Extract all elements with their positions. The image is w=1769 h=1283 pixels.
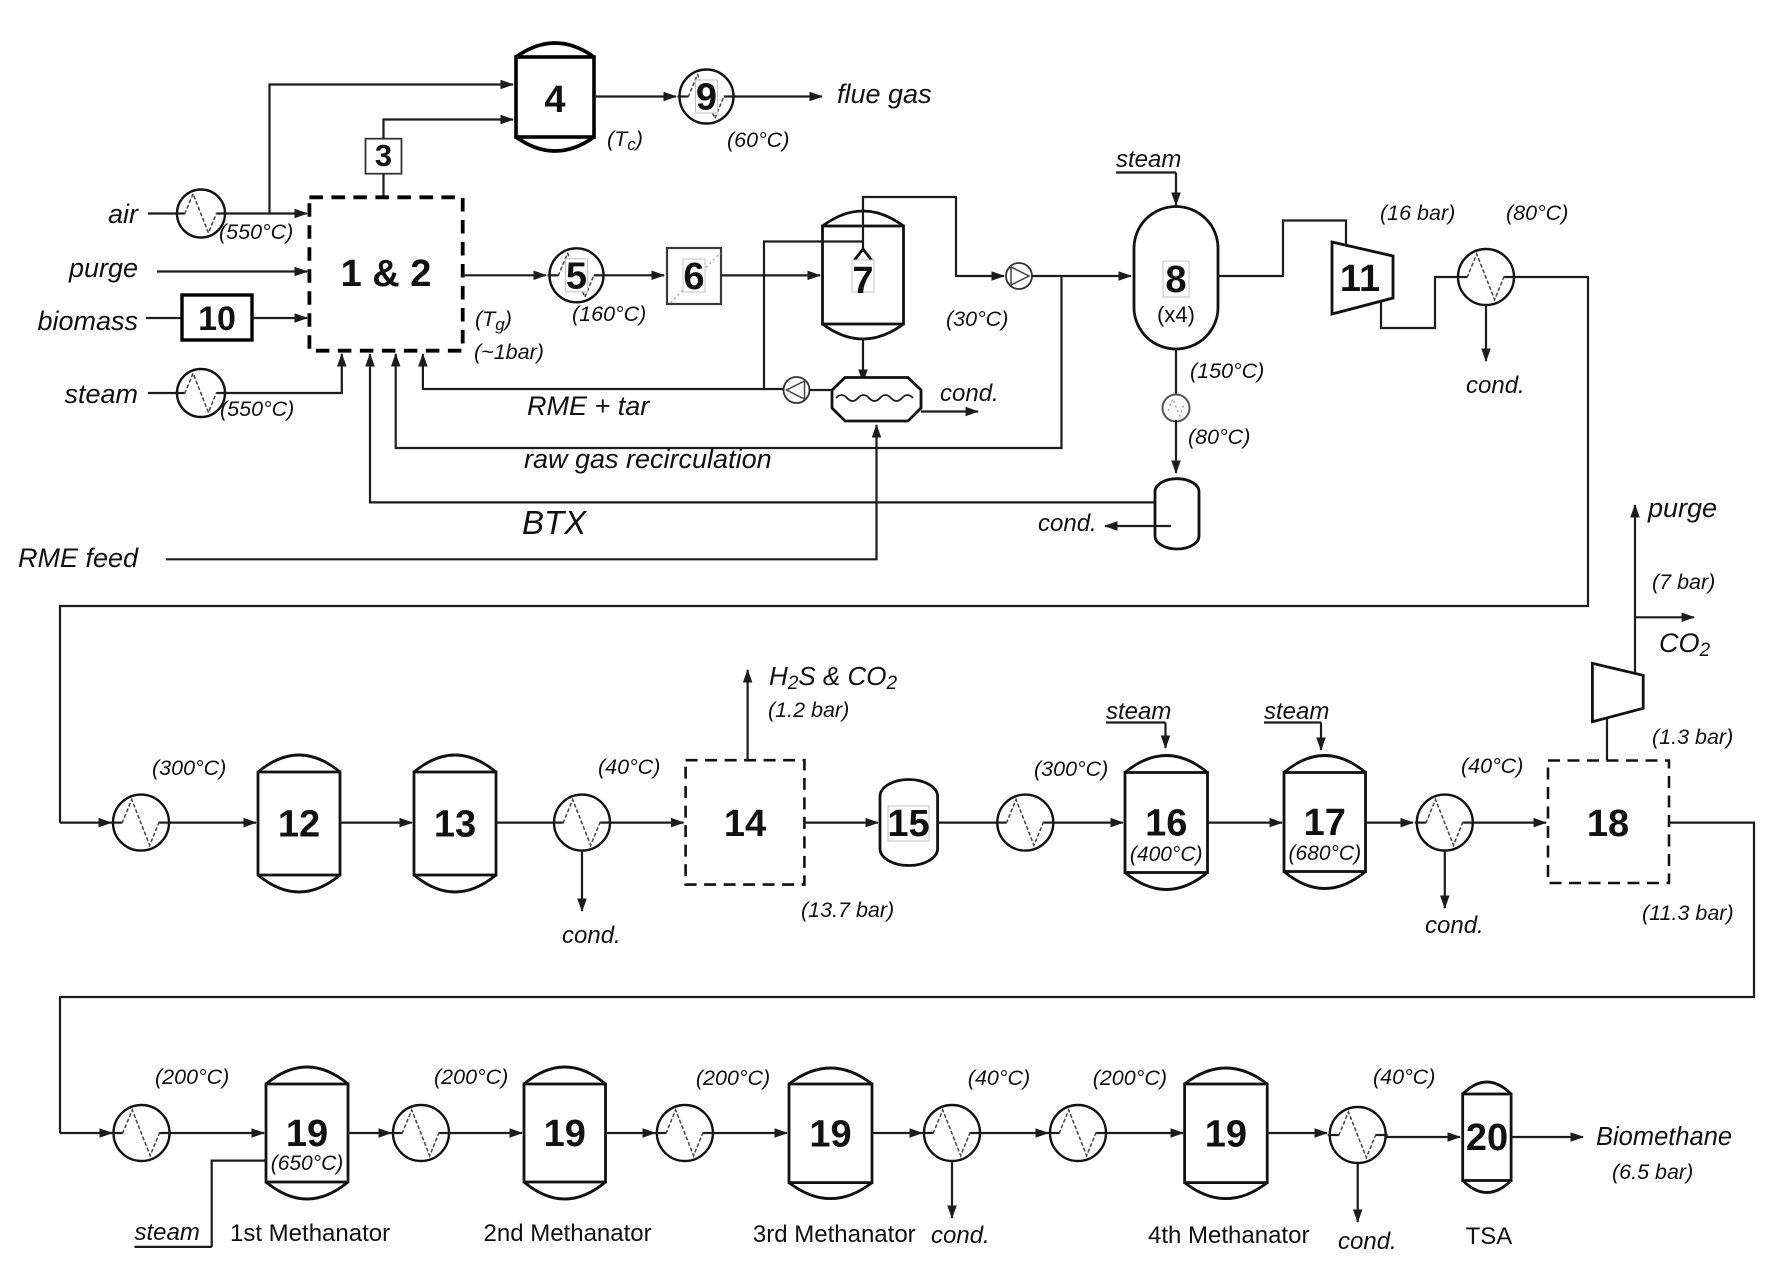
svg-text:cond.: cond. xyxy=(931,1222,990,1249)
heater row2 300C xyxy=(111,795,171,851)
svg-text:(160°C): (160°C) xyxy=(572,302,646,326)
wire heater to 19d xyxy=(1106,1132,1184,1134)
svg-text:(300°C): (300°C) xyxy=(152,756,226,780)
unit 12 guard bed vessel xyxy=(258,755,340,892)
svg-text:(80°C): (80°C) xyxy=(1506,201,1568,225)
wire purge to gasifier xyxy=(157,270,307,272)
wire steam to reformer 8 xyxy=(1175,173,1177,206)
node steam methanator label xyxy=(135,1219,212,1247)
svg-text:16: 16 xyxy=(1145,803,1187,845)
heater row3 40C a xyxy=(922,1105,982,1161)
wire 12 to 13 xyxy=(340,821,412,823)
wire 19a to heater xyxy=(348,1132,391,1134)
label (40C) row2 b xyxy=(1461,754,1523,778)
label TSA xyxy=(1466,1223,1513,1250)
unit 15 polishing vessel xyxy=(880,780,938,866)
label cond row2 a xyxy=(562,922,621,949)
node purge top right label xyxy=(1647,493,1717,523)
unit 18 PSA dashed box xyxy=(1548,761,1669,884)
svg-text:3rd Methanator: 3rd Methanator xyxy=(753,1221,916,1248)
svg-text:20: 20 xyxy=(1466,1117,1508,1159)
wire 15 to heater 300C b xyxy=(938,821,998,823)
svg-text:17: 17 xyxy=(1304,802,1346,844)
svg-text:(40°C): (40°C) xyxy=(1373,1065,1435,1089)
svg-text:air: air xyxy=(108,199,139,229)
label cond. right xyxy=(1466,372,1525,399)
label (160°C) xyxy=(572,302,646,326)
svg-text:cond.: cond. xyxy=(1038,510,1097,537)
unit 19 first methanator vessel xyxy=(266,1067,348,1199)
wire heater to 19a xyxy=(169,1132,264,1134)
svg-text:2nd Methanator: 2nd Methanator xyxy=(484,1220,652,1247)
wire into heater row3 200C xyxy=(60,1132,112,1134)
wire 17 to heater 40C b xyxy=(1366,821,1414,823)
unit 17 reformer vessel xyxy=(1284,756,1366,889)
svg-text:steam: steam xyxy=(1106,698,1171,725)
wire unit 3 down to gasifier xyxy=(382,174,384,198)
label (550°C) steam xyxy=(220,397,294,421)
node RME feed label xyxy=(18,543,139,573)
wire RME tar from scrubber 7 xyxy=(423,242,863,390)
vessel BTX knockout xyxy=(1155,479,1199,549)
svg-text:(1.2 bar): (1.2 bar) xyxy=(768,698,849,722)
unit 19 third methanator vessel xyxy=(789,1068,872,1199)
pump B RME circulation xyxy=(784,377,810,403)
label (60°C) xyxy=(727,128,789,152)
wire 18 to row3 recycle xyxy=(60,823,1754,1133)
wire heater to unit 18 xyxy=(1472,821,1546,823)
svg-text:(200°C): (200°C) xyxy=(155,1065,229,1089)
svg-text:19: 19 xyxy=(1205,1113,1247,1155)
label (Tg) xyxy=(475,307,512,334)
svg-text:cond.: cond. xyxy=(940,380,999,407)
svg-text:cond.: cond. xyxy=(562,922,621,949)
wire unit 4 to heater 9 xyxy=(594,95,676,97)
wire pump to reformer 8 xyxy=(1032,275,1131,277)
svg-text:flue gas: flue gas xyxy=(837,79,932,109)
heater row3 40C b xyxy=(1328,1107,1388,1163)
node steam into reformer 8 label xyxy=(1116,146,1181,173)
wire CO2 branch xyxy=(1635,616,1694,618)
label (150C) xyxy=(1190,359,1264,383)
wire 19d to heater 40C b xyxy=(1267,1132,1327,1134)
label 1st Methanator xyxy=(230,1220,390,1247)
svg-text:steam: steam xyxy=(1116,146,1181,173)
label cond row2 b xyxy=(1425,912,1484,939)
svg-text:(80°C): (80°C) xyxy=(1188,425,1250,449)
label (200C) row3 a xyxy=(155,1065,229,1089)
label (80°C) top right xyxy=(1506,201,1568,225)
wire drum condensate out xyxy=(921,410,978,412)
label (200C) row3 b xyxy=(434,1065,508,1089)
wire heater cond down row2 xyxy=(581,850,583,911)
wire to BTX knockout xyxy=(1175,420,1177,473)
wire filter 6 to scrubber 7 xyxy=(721,274,820,276)
wire heater to vessel 16 xyxy=(1053,821,1123,823)
label (30°C) xyxy=(946,307,1008,331)
svg-text:(~1bar): (~1bar) xyxy=(474,340,544,364)
label RME + tar xyxy=(527,391,650,421)
svg-text:(680°C): (680°C) xyxy=(1289,842,1362,865)
svg-text:1st Methanator: 1st Methanator xyxy=(230,1220,390,1247)
heater air preheater xyxy=(175,190,227,238)
svg-text:(300°C): (300°C) xyxy=(1034,757,1108,781)
heater row2 40C b xyxy=(1415,795,1475,851)
svg-text:18: 18 xyxy=(1587,803,1629,845)
heater row3 200C a xyxy=(112,1105,172,1161)
wire air label to heater xyxy=(148,212,179,214)
label BTX xyxy=(522,504,588,541)
svg-text:BTX: BTX xyxy=(522,504,588,541)
svg-text:(400°C): (400°C) xyxy=(1130,843,1203,866)
svg-text:(550°C): (550°C) xyxy=(220,397,294,421)
wire heater to purge recycle down xyxy=(60,277,1588,823)
svg-text:(7 bar): (7 bar) xyxy=(1652,570,1715,594)
svg-text:19: 19 xyxy=(809,1113,851,1155)
svg-text:(x4): (x4) xyxy=(1157,302,1195,327)
svg-text:4: 4 xyxy=(544,79,565,121)
wire recycle into heater 300C xyxy=(60,821,111,823)
svg-text:steam: steam xyxy=(135,1219,200,1246)
label (~1bar) xyxy=(474,340,544,364)
svg-text:10: 10 xyxy=(198,300,236,338)
label 4th Methanator xyxy=(1148,1222,1309,1249)
wire reformer 8 to turbine 11 xyxy=(1218,221,1346,277)
unit 10 biomass pretreatment xyxy=(182,295,252,340)
node biomass feed label xyxy=(37,306,138,336)
wire turbine 11 to heater xyxy=(1381,277,1458,328)
label 2nd Methanator xyxy=(484,1220,652,1247)
heater row3 200C d xyxy=(1048,1105,1108,1161)
svg-text:(200°C): (200°C) xyxy=(1093,1066,1167,1090)
svg-text:(200°C): (200°C) xyxy=(696,1066,770,1090)
wire 19c to heater 40C xyxy=(872,1132,922,1134)
unit 19 fourth methanator vessel xyxy=(1185,1068,1268,1199)
svg-text:Biomethane: Biomethane xyxy=(1596,1123,1732,1151)
unit 7 RME scrubber vessel xyxy=(823,211,904,339)
svg-text:(Tc): (Tc) xyxy=(607,127,643,154)
compressor CO2 xyxy=(1592,663,1643,721)
svg-text:(40°C): (40°C) xyxy=(598,755,660,779)
wire 19b to heater xyxy=(606,1132,656,1134)
label (40C) row3 b xyxy=(1373,1065,1435,1089)
svg-text:11: 11 xyxy=(1340,258,1380,300)
wire unit 3 up to unit 4 xyxy=(384,120,514,139)
node air feed label xyxy=(108,199,139,229)
label (Tc) xyxy=(607,127,643,154)
unit 3 label box xyxy=(366,138,402,174)
pump after scrubber 7 xyxy=(1006,263,1032,289)
heater 9 flue gas cooler xyxy=(678,70,736,124)
label (80C) small xyxy=(1188,425,1250,449)
wire heater 5 to filter 6 xyxy=(604,274,665,276)
wire unit 10 to gasifier xyxy=(252,317,307,319)
label cond. drum xyxy=(940,380,999,407)
svg-text:1 & 2: 1 & 2 xyxy=(341,253,432,295)
wire scrubber 7 gas outlet to pump xyxy=(863,197,1004,276)
svg-text:(30°C): (30°C) xyxy=(946,307,1008,331)
label (40C) row2 a xyxy=(598,755,660,779)
heater 5 raw gas cooler xyxy=(548,248,606,302)
svg-text:15: 15 xyxy=(887,803,929,845)
wire heater to unit 14 xyxy=(610,821,684,823)
node steam into 16 label xyxy=(1106,698,1171,725)
wire heater 9 to flue gas xyxy=(734,95,823,97)
svg-text:5: 5 xyxy=(566,255,587,297)
svg-text:purge: purge xyxy=(1647,493,1717,523)
unit 13 guard bed vessel xyxy=(414,755,496,892)
wire heater cond down row2 b xyxy=(1444,850,1446,908)
wire 14 to 15 xyxy=(804,821,878,823)
label (300C) row2 b xyxy=(1034,757,1108,781)
wire 13 to heater 40C xyxy=(496,821,555,823)
svg-text:cond.: cond. xyxy=(1466,372,1525,399)
label cond row3 b xyxy=(1338,1228,1397,1255)
wire gasifier to heater 5 xyxy=(463,274,546,276)
svg-text:purge: purge xyxy=(68,253,138,283)
node steam feed label xyxy=(64,379,138,409)
wire scrubber 7 bottoms to drum xyxy=(862,338,864,382)
label (16 bar) xyxy=(1380,201,1455,225)
svg-text:raw gas recirculation: raw gas recirculation xyxy=(524,444,772,474)
svg-text:4th Methanator: 4th Methanator xyxy=(1148,1222,1309,1249)
unit 14 acid gas removal dashed box xyxy=(686,760,805,884)
label (13.7 bar) xyxy=(801,898,894,922)
label (11.3 bar) xyxy=(1642,901,1734,925)
label (1.2 bar) xyxy=(768,698,849,722)
label 3rd Methanator xyxy=(753,1221,916,1248)
svg-text:RME + tar: RME + tar xyxy=(527,391,650,421)
svg-text:(550°C): (550°C) xyxy=(219,220,293,244)
svg-text:TSA: TSA xyxy=(1466,1223,1513,1250)
wire heater 40 to heater 200 xyxy=(980,1132,1049,1134)
svg-text:steam: steam xyxy=(1264,698,1329,725)
label (300C) row2 a xyxy=(152,756,226,780)
svg-text:8: 8 xyxy=(1165,259,1186,301)
wire raw gas recirculation xyxy=(396,276,1062,448)
label (550°C) air xyxy=(219,220,293,244)
unit 8 reformer vessel xyxy=(1134,207,1218,350)
unit 6 filter box xyxy=(667,248,721,304)
wire steam into 19a xyxy=(212,1161,266,1247)
svg-text:(40°C): (40°C) xyxy=(1461,754,1523,778)
node purge feed label xyxy=(68,253,138,283)
svg-text:(6.5 bar): (6.5 bar) xyxy=(1612,1160,1693,1184)
wire purge up xyxy=(1634,505,1636,672)
svg-text:13: 13 xyxy=(434,804,476,846)
svg-text:(650°C): (650°C) xyxy=(271,1152,344,1175)
label H2S CO2 xyxy=(769,661,898,694)
label (7 bar) xyxy=(1652,570,1715,594)
wire RME feed to drum xyxy=(166,425,877,559)
svg-text:6: 6 xyxy=(683,256,704,298)
label (6.5 bar) xyxy=(1612,1160,1693,1184)
wire biomass to unit 10 xyxy=(146,317,182,319)
drum RME cooler separator xyxy=(832,378,921,422)
wire BTX from knockout to gasifier xyxy=(370,354,1169,502)
svg-text:14: 14 xyxy=(724,803,766,845)
node flue gas outlet label xyxy=(837,79,932,109)
label raw gas recirculation xyxy=(524,444,772,474)
wire pump B to drum xyxy=(810,389,834,391)
wire heater to vessel 12 xyxy=(169,821,257,823)
wire reformer 8 bottoms xyxy=(1175,349,1177,396)
svg-text:steam: steam xyxy=(64,379,138,409)
wire steam into 17 xyxy=(1320,723,1322,751)
svg-text:cond.: cond. xyxy=(1338,1228,1397,1255)
node Biomethane product label xyxy=(1596,1123,1732,1151)
wire steam label to heater xyxy=(148,392,179,394)
svg-text:7: 7 xyxy=(852,260,873,302)
wire air heater to gasifier xyxy=(223,212,307,214)
unit 20 TSA vessel xyxy=(1463,1082,1511,1193)
label (1.3 bar) xyxy=(1652,725,1733,749)
svg-text:(150°C): (150°C) xyxy=(1190,359,1264,383)
wire heater cond down row3 a xyxy=(951,1161,953,1219)
svg-text:(Tg): (Tg) xyxy=(475,307,512,334)
wire knockout cond out xyxy=(1105,525,1171,527)
label CO2 xyxy=(1659,628,1711,661)
svg-text:(60°C): (60°C) xyxy=(727,128,789,152)
heater after turbine 80C xyxy=(1456,249,1516,305)
wire heater cond out xyxy=(1485,305,1487,362)
label cond row3 a xyxy=(931,1222,990,1249)
node steam into 17 label xyxy=(1264,698,1329,725)
svg-text:biomass: biomass xyxy=(37,306,138,336)
heater row3 200C c xyxy=(655,1105,715,1161)
label (200C) row3 c xyxy=(696,1066,770,1090)
svg-text:(13.7 bar): (13.7 bar) xyxy=(801,898,894,922)
svg-text:(16 bar): (16 bar) xyxy=(1380,201,1455,225)
svg-text:(11.3 bar): (11.3 bar) xyxy=(1642,901,1734,925)
wire heater to 19b xyxy=(449,1132,523,1134)
label (200C) row3 d xyxy=(1093,1066,1167,1090)
wire heater to TSA 20 xyxy=(1385,1136,1460,1138)
wire 20 to biomethane xyxy=(1511,1136,1583,1138)
wire air branch up to unit 4 xyxy=(270,85,514,214)
svg-text:(1.3 bar): (1.3 bar) xyxy=(1652,725,1733,749)
wire 16 to 17 xyxy=(1208,821,1283,823)
heater steam preheater xyxy=(175,369,227,417)
svg-text:19: 19 xyxy=(286,1113,328,1155)
wire RME tar junction to pump B xyxy=(764,388,785,390)
unit 19 second methanator vessel xyxy=(524,1067,606,1199)
heater row2 40C xyxy=(552,795,612,851)
svg-text:(200°C): (200°C) xyxy=(434,1065,508,1089)
svg-text:cond.: cond. xyxy=(1425,912,1484,939)
wire steam into 16 xyxy=(1164,723,1166,749)
wire heater cond down row3 b xyxy=(1357,1163,1359,1223)
heater row2 300C b xyxy=(995,795,1055,851)
wire steam heater to gasifier bottom xyxy=(223,354,342,393)
label cond. knockout xyxy=(1038,510,1097,537)
svg-text:3: 3 xyxy=(375,138,392,173)
label (40C) row3 a xyxy=(968,1066,1030,1090)
turbine 11 xyxy=(1332,242,1393,314)
wire H2S CO2 vent xyxy=(746,670,748,760)
svg-text:12: 12 xyxy=(278,804,320,846)
svg-text:(40°C): (40°C) xyxy=(968,1066,1030,1090)
svg-text:19: 19 xyxy=(544,1113,586,1155)
unit 4 combustor vessel xyxy=(516,43,594,151)
wire PSA 18 to compressor xyxy=(1606,719,1608,761)
unit 16 prereformer vessel xyxy=(1125,756,1208,890)
heater row3 200C b xyxy=(391,1105,451,1161)
valve small heater 150-80 xyxy=(1163,395,1190,422)
svg-text:RME feed: RME feed xyxy=(18,543,139,573)
svg-text:9: 9 xyxy=(696,77,717,119)
unit 1 and 2 gasifier dashed box xyxy=(309,197,462,350)
wire heater to 19c xyxy=(712,1132,787,1134)
